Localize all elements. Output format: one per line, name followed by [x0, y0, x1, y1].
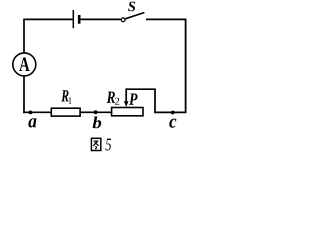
node b	[94, 110, 98, 114]
wire a to R1	[23, 111, 51, 113]
battery short plate	[78, 15, 81, 24]
wire switch to top-right corner	[146, 18, 186, 20]
node c label	[169, 119, 176, 128]
wire top-left horizontal	[24, 18, 73, 20]
wiper arrowhead	[124, 101, 129, 107]
wire R1 to b	[81, 111, 96, 113]
node a	[29, 111, 33, 115]
wire right vertical	[185, 19, 187, 113]
battery long plate	[72, 10, 74, 28]
switch label S	[128, 2, 135, 12]
label R1 subscript	[69, 97, 72, 103]
label R2	[107, 92, 115, 103]
wire battery to switch	[80, 18, 120, 20]
caption glyph 图	[91, 138, 100, 150]
wire wiper right vertical	[154, 89, 156, 113]
node c	[171, 111, 175, 115]
switch blade	[125, 13, 144, 19]
wire bottom-right horizontal	[154, 111, 186, 113]
caption numeral 5	[106, 139, 112, 151]
wire b to R2	[95, 111, 112, 113]
wire left vertical lower	[23, 76, 25, 113]
switch pivot circle	[121, 18, 125, 22]
wire wiper top horizontal	[126, 88, 156, 90]
label R1	[61, 90, 68, 101]
label R2 subscript	[115, 98, 119, 105]
resistor R1 body	[51, 108, 80, 116]
rheostat R2 body	[112, 108, 143, 116]
node b label	[93, 117, 102, 129]
ammeter body	[13, 53, 36, 76]
ammeter label A	[19, 57, 29, 71]
node a label	[28, 118, 36, 127]
wire left vertical upper	[23, 19, 25, 53]
wiper stem	[125, 88, 127, 102]
wiper label P	[129, 93, 138, 104]
